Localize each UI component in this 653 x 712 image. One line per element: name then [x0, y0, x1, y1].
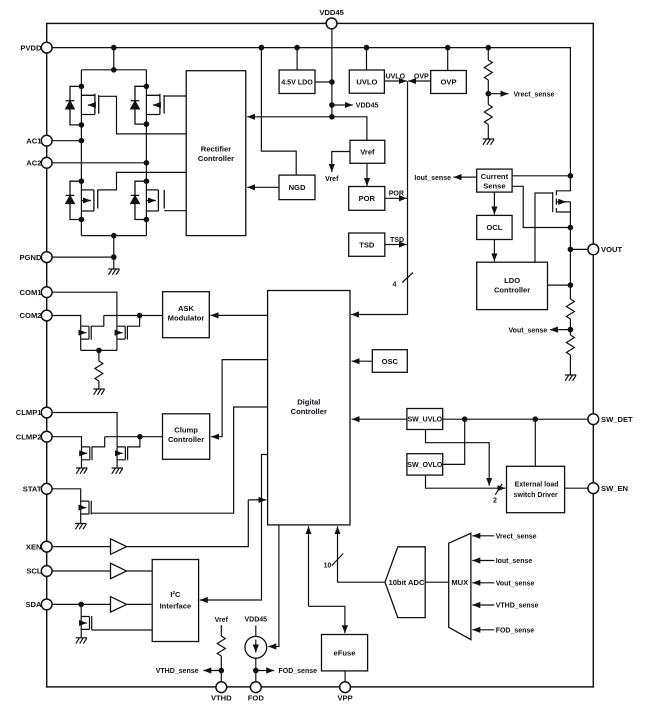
svg-text:Vout_sense: Vout_sense [509, 327, 548, 334]
svg-text:I²C: I²C [170, 590, 181, 599]
svg-text:OSC: OSC [382, 357, 399, 366]
svg-text:VTHD_sense: VTHD_sense [156, 668, 199, 675]
svg-text:AC1: AC1 [26, 136, 42, 145]
svg-text:XEN: XEN [26, 542, 42, 551]
svg-text:Vout_sense: Vout_sense [496, 581, 535, 588]
svg-text:Iout_sense: Iout_sense [496, 558, 533, 565]
svg-text:STAT: STAT [23, 485, 42, 494]
svg-text:Controller: Controller [494, 286, 530, 295]
svg-text:SDA: SDA [25, 600, 42, 609]
svg-text:Sense: Sense [483, 181, 505, 190]
svg-text:Controller: Controller [291, 407, 327, 416]
svg-text:PGND: PGND [20, 253, 42, 262]
svg-text:CLMP1: CLMP1 [16, 408, 43, 417]
svg-text:Iout_sense: Iout_sense [414, 175, 451, 182]
svg-text:COM2: COM2 [20, 311, 42, 320]
svg-text:SCL: SCL [26, 567, 42, 576]
svg-text:4: 4 [393, 282, 397, 289]
svg-text:AC2: AC2 [26, 159, 41, 168]
svg-text:CLMP2: CLMP2 [16, 432, 42, 441]
svg-text:POR: POR [359, 194, 376, 203]
svg-text:switch Driver: switch Driver [514, 492, 558, 499]
svg-text:VDD45: VDD45 [245, 616, 268, 623]
svg-text:External load: External load [515, 481, 559, 488]
svg-text:Current: Current [481, 172, 509, 181]
svg-text:Digital: Digital [297, 397, 320, 406]
svg-text:Vref: Vref [325, 176, 339, 183]
svg-text:OVP: OVP [440, 78, 456, 87]
svg-text:10: 10 [324, 562, 332, 569]
svg-text:SW_DET: SW_DET [601, 415, 633, 424]
svg-text:VTHD_sense: VTHD_sense [496, 603, 539, 610]
svg-text:UVLO: UVLO [356, 77, 377, 86]
svg-text:PVDD: PVDD [20, 43, 42, 52]
svg-text:OCL: OCL [486, 223, 502, 232]
svg-text:Controller: Controller [198, 154, 234, 163]
svg-text:ASK: ASK [178, 304, 195, 313]
svg-text:SW_UVLO: SW_UVLO [407, 417, 442, 424]
svg-text:Rectifier: Rectifier [201, 145, 231, 154]
svg-text:NGD: NGD [289, 183, 306, 192]
svg-text:VOUT: VOUT [601, 245, 622, 254]
svg-text:Clump: Clump [174, 426, 198, 435]
svg-text:TSD: TSD [390, 237, 404, 244]
svg-text:4.5V LDO: 4.5V LDO [281, 78, 313, 86]
svg-text:COM1: COM1 [20, 288, 43, 297]
svg-text:eFuse: eFuse [334, 649, 356, 658]
svg-text:UVLO: UVLO [386, 74, 406, 81]
svg-text:VPP: VPP [337, 694, 352, 703]
svg-text:Vrect_sense: Vrect_sense [496, 534, 537, 541]
svg-text:Vref: Vref [215, 617, 229, 624]
svg-text:Interface: Interface [160, 602, 192, 611]
svg-text:Modulator: Modulator [168, 313, 205, 322]
svg-text:FOD_sense: FOD_sense [496, 628, 535, 635]
svg-text:VTHD: VTHD [211, 694, 232, 703]
svg-text:Vref: Vref [360, 148, 375, 157]
svg-text:FOD: FOD [248, 694, 265, 703]
svg-text:Vrect_sense: Vrect_sense [514, 91, 555, 98]
svg-text:VDD45: VDD45 [356, 103, 379, 110]
svg-text:OVP: OVP [414, 74, 429, 81]
svg-text:Controller: Controller [168, 435, 204, 444]
svg-text:FOD_sense: FOD_sense [279, 668, 318, 675]
svg-text:SW_EN: SW_EN [601, 484, 628, 493]
svg-text:TSD: TSD [359, 240, 375, 249]
svg-text:2: 2 [493, 497, 497, 504]
svg-text:LDO: LDO [504, 276, 520, 285]
svg-text:MUX: MUX [451, 578, 468, 587]
svg-text:10bit ADC: 10bit ADC [388, 578, 425, 587]
svg-text:POR: POR [389, 191, 404, 198]
svg-text:VDD45: VDD45 [319, 8, 344, 17]
svg-text:SW_OVLO: SW_OVLO [407, 462, 443, 469]
